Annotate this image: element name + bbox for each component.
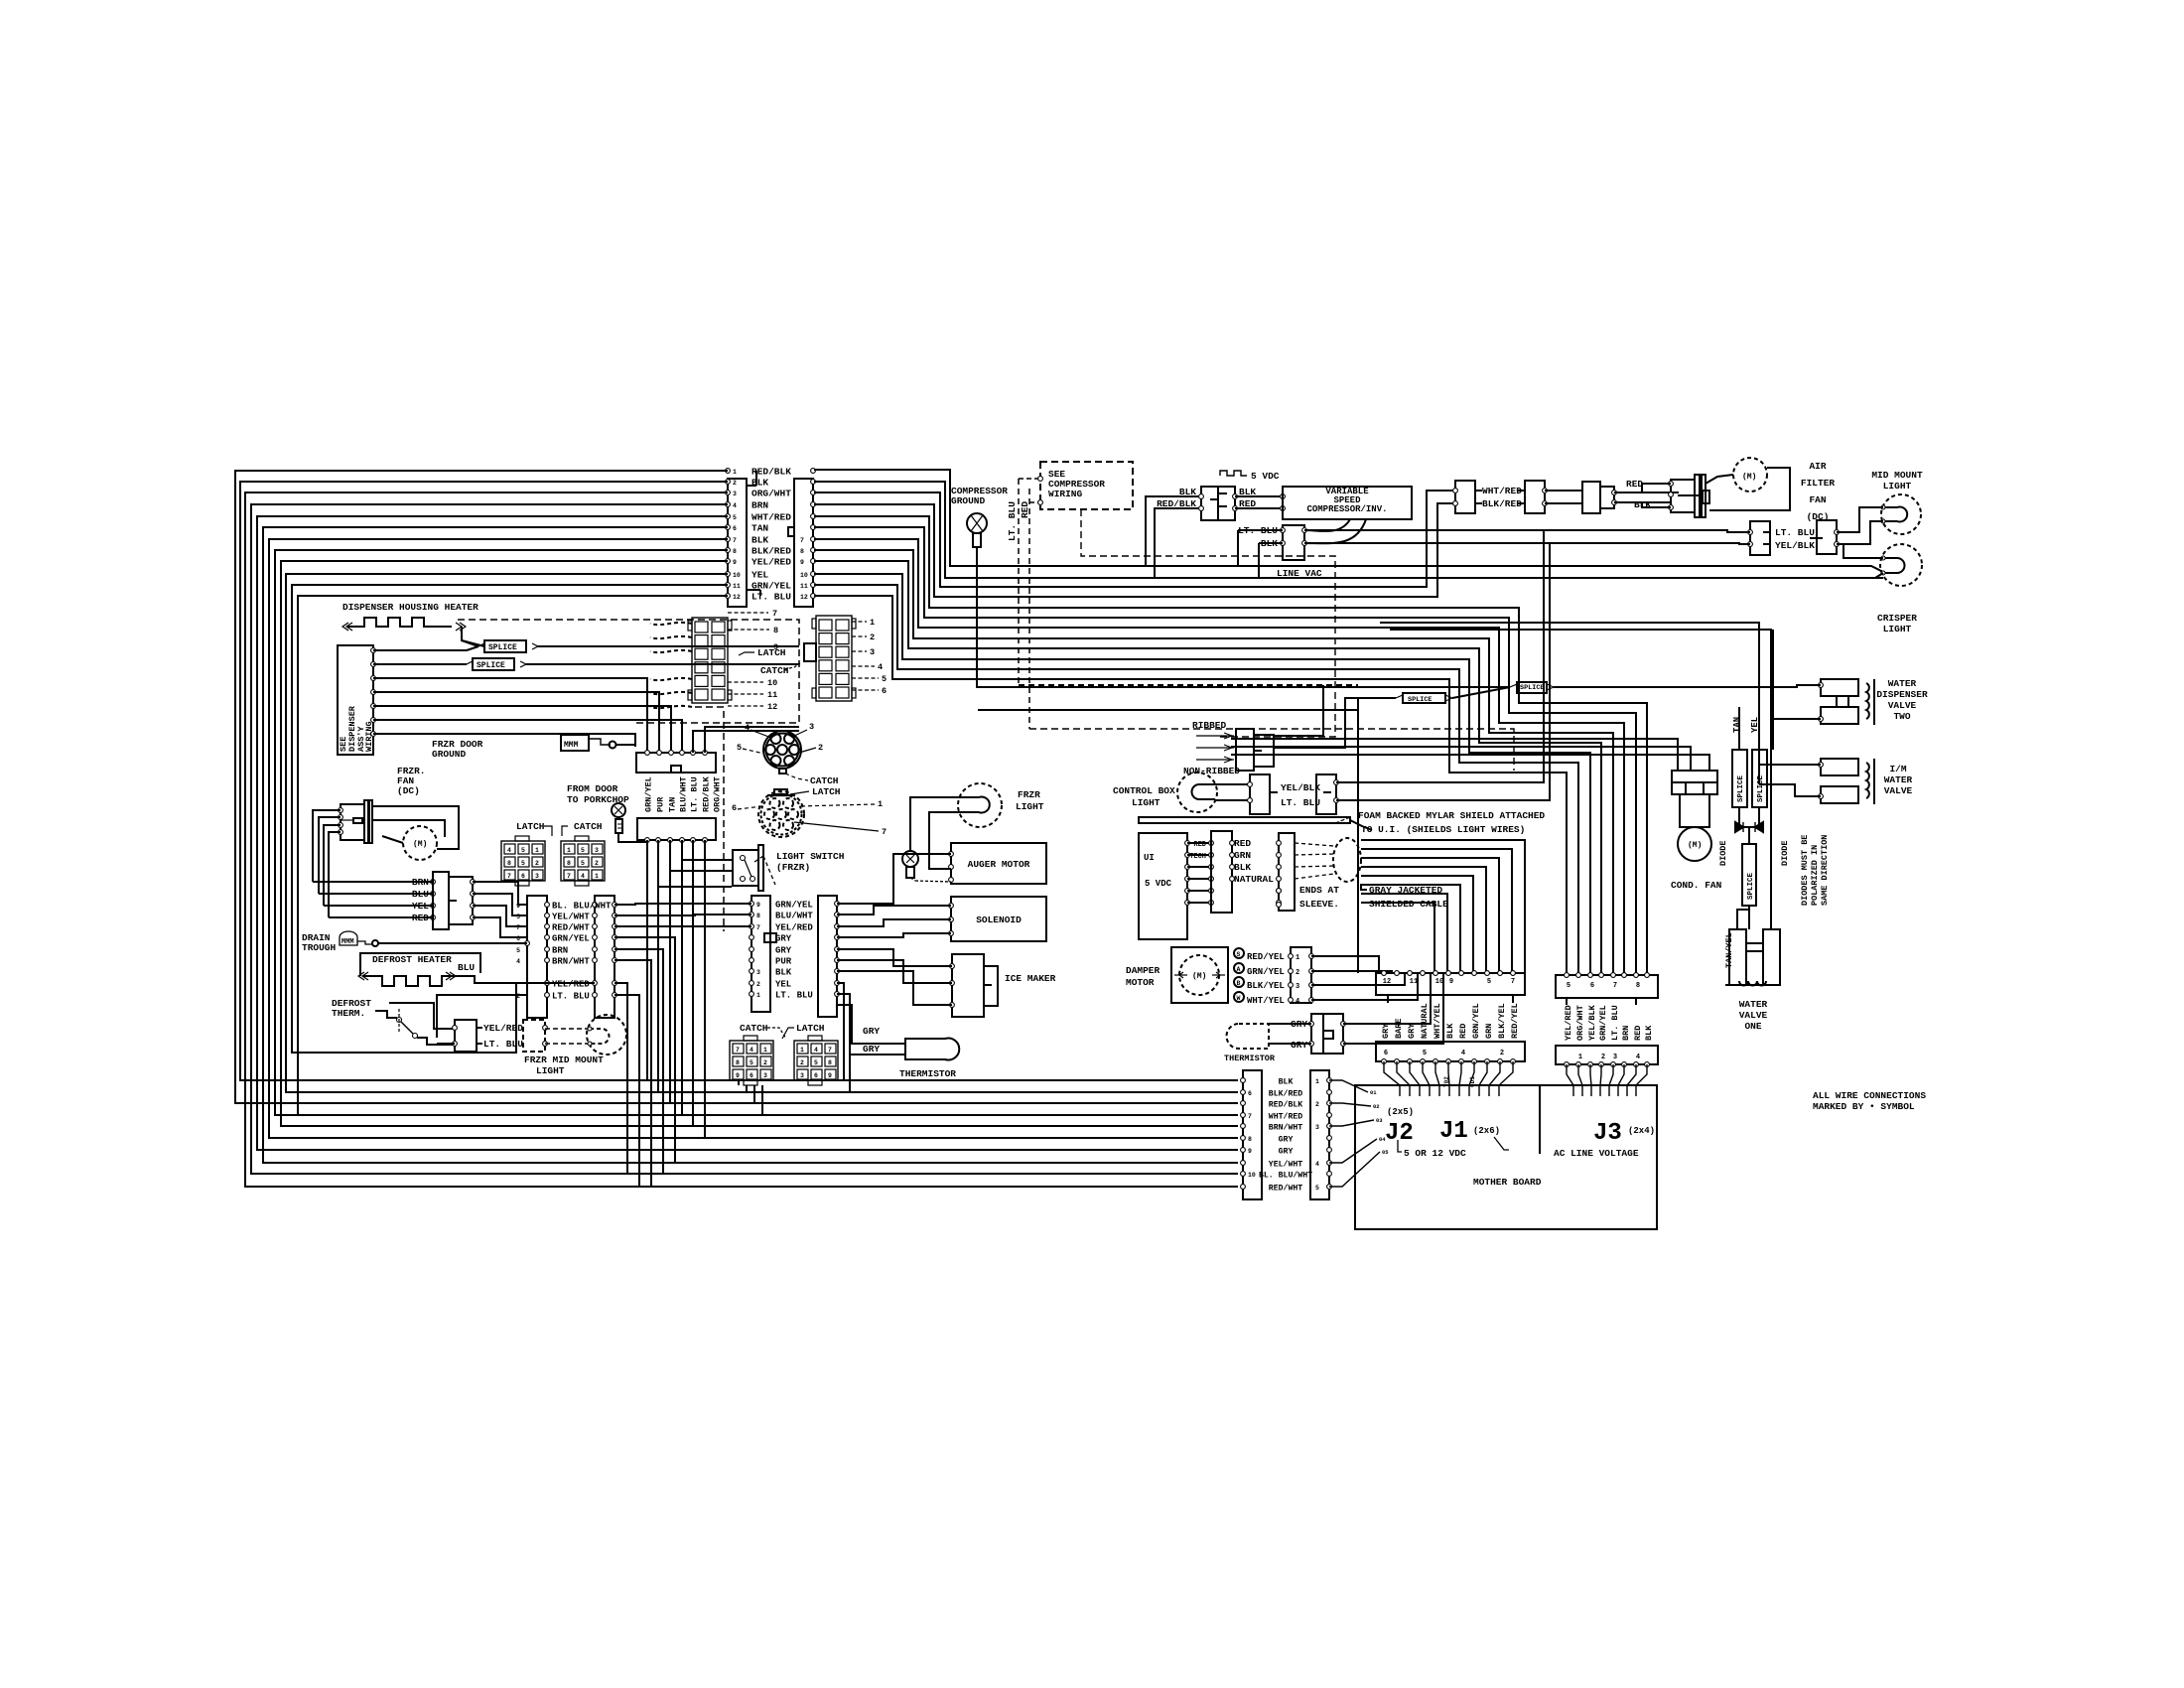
dashed lead — [650, 678, 692, 680]
pin strip A — [680, 751, 685, 756]
leader — [728, 645, 769, 647]
im water valve coil b — [1821, 786, 1858, 803]
svg-text:(2x4): (2x4) — [1628, 1126, 1655, 1136]
svg-text:4: 4 — [745, 723, 750, 733]
svg-text:5: 5 — [516, 947, 520, 954]
wire LT.BLU to plug — [1304, 530, 1750, 532]
ice maker connector — [952, 954, 984, 1017]
svg-text:NON-RIBBED: NON-RIBBED — [1183, 766, 1240, 776]
svg-text:RED/WHT: RED/WHT — [552, 923, 590, 933]
wire — [1187, 902, 1211, 904]
wire YEL down — [1758, 707, 1760, 750]
svg-text:4: 4 — [814, 1047, 818, 1054]
wire — [1187, 890, 1211, 892]
leader — [852, 677, 879, 679]
svg-text:J3: J3 — [1593, 1120, 1622, 1147]
svg-text:RED/YEL: RED/YEL — [1510, 1003, 1520, 1039]
J3 lower connector — [1556, 1046, 1658, 1064]
wire to J2 — [1329, 1139, 1377, 1163]
wire gry long — [978, 709, 1358, 711]
svg-text:TAN: TAN — [1732, 717, 1742, 733]
svg-text:CATCH: CATCH — [810, 775, 839, 786]
svg-text:9: 9 — [1449, 978, 1453, 986]
svg-text:(M): (M) — [1742, 473, 1756, 482]
svg-text:8: 8 — [567, 860, 571, 867]
pin P1 right row 9 — [811, 559, 816, 564]
svg-text:(2x5): (2x5) — [1387, 1107, 1414, 1117]
pin strip B — [703, 838, 708, 843]
shield connector strip — [1279, 833, 1295, 911]
cond fan motor — [1678, 827, 1711, 861]
svg-text:UI: UI — [1144, 853, 1155, 863]
svg-text:SPLICE: SPLICE — [488, 643, 517, 652]
svg-text:RED: RED — [1633, 1026, 1643, 1041]
pin 3 P1 left — [726, 491, 731, 495]
wire — [747, 589, 760, 591]
connector P1 left housing — [728, 479, 747, 607]
catch grid connector — [561, 841, 605, 881]
wire junction — [1743, 827, 1749, 844]
solenoid box — [951, 897, 1046, 941]
center connector M left — [527, 896, 547, 1018]
defrost heater loop — [360, 953, 480, 976]
svg-text:1: 1 — [870, 618, 875, 628]
svg-text:3: 3 — [733, 491, 737, 497]
svg-text:NATURAL: NATURAL — [1234, 874, 1274, 885]
center connector N right — [818, 896, 837, 1017]
wire — [319, 817, 341, 894]
svg-text:FAN: FAN — [1809, 494, 1826, 505]
svg-text:CATCH: CATCH — [740, 1023, 768, 1034]
pin 1 P1 left — [726, 469, 731, 474]
latch grid lower — [794, 1041, 838, 1080]
im water valve coil a — [1821, 759, 1858, 775]
mylar shield bar — [1139, 817, 1350, 823]
dashed wire — [545, 1028, 590, 1030]
leader — [852, 621, 867, 623]
dashed lead — [650, 636, 692, 638]
svg-text:VALVE: VALVE — [1884, 785, 1913, 796]
mother board box — [1355, 1085, 1657, 1229]
pin strip B — [680, 838, 685, 843]
svg-text:SPLICE: SPLICE — [1737, 774, 1745, 802]
wire J1 to board — [1423, 1061, 1430, 1096]
wire down — [614, 949, 663, 1174]
wire harness left TAN — [263, 527, 1238, 1163]
svg-text:4: 4 — [1315, 1161, 1319, 1168]
wire — [615, 745, 635, 747]
svg-text:GRN: GRN — [1234, 850, 1251, 861]
svg-text:5 OR 12 VDC: 5 OR 12 VDC — [1404, 1148, 1466, 1159]
svg-text:02: 02 — [1373, 1103, 1380, 1110]
dispenser pin 1 — [371, 648, 376, 653]
wire long — [1390, 630, 1771, 929]
svg-text:4: 4 — [733, 502, 737, 509]
svg-text:FRZR MID MOUNT: FRZR MID MOUNT — [524, 1055, 604, 1065]
wire — [452, 976, 527, 983]
svg-text:LATCH: LATCH — [812, 786, 841, 797]
svg-text:WATER: WATER — [1739, 999, 1768, 1010]
wire — [1274, 698, 1358, 748]
svg-text:SAME DIRECTION: SAME DIRECTION — [1820, 835, 1830, 906]
svg-text:YEL/RED: YEL/RED — [775, 923, 813, 933]
wire harness left BLK/RED — [275, 550, 1238, 1115]
wire — [372, 806, 459, 849]
wire harness left BLK — [269, 539, 1238, 1138]
wire down — [614, 960, 651, 1187]
svg-text:LIGHT: LIGHT — [1016, 801, 1044, 812]
svg-text:5: 5 — [1567, 982, 1570, 990]
wire down — [614, 937, 675, 1163]
svg-text:GRN/YEL: GRN/YEL — [1471, 1003, 1481, 1039]
svg-text:7: 7 — [828, 1047, 832, 1054]
svg-text:BLK/YEL: BLK/YEL — [1497, 1003, 1507, 1039]
svg-text:SOLENOID: SOLENOID — [976, 914, 1022, 925]
svg-text:BLK: BLK — [751, 535, 768, 546]
air filter plug body — [1671, 480, 1695, 512]
wire — [1238, 529, 1283, 531]
svg-text:GRY: GRY — [863, 1026, 880, 1037]
dashed wire RED — [1028, 489, 1030, 729]
svg-text:2: 2 — [870, 633, 875, 642]
svg-text:NATURAL: NATURAL — [1420, 1003, 1430, 1039]
leader — [728, 629, 769, 631]
svg-text:YEL/RED: YEL/RED — [483, 1023, 523, 1034]
svg-text:T02: T02 — [1443, 1076, 1450, 1087]
svg-text:(M): (M) — [1688, 841, 1702, 850]
wire RED — [329, 916, 433, 918]
svg-text:I/M: I/M — [1889, 764, 1906, 774]
svg-text:3: 3 — [1296, 983, 1299, 991]
svg-text:3: 3 — [595, 847, 599, 854]
svg-text:WHT/YEL: WHT/YEL — [1247, 996, 1285, 1006]
svg-text:DISPENSER HOUSING HEATER: DISPENSER HOUSING HEATER — [342, 602, 478, 613]
wire — [373, 706, 671, 753]
svg-text:WHT/RED: WHT/RED — [751, 512, 791, 523]
strip A tab — [671, 766, 681, 773]
svg-text:5: 5 — [521, 860, 525, 867]
wire J3 to board — [1636, 1064, 1647, 1096]
svg-text:5: 5 — [521, 847, 525, 854]
svg-text:DIODES MUST BE: DIODES MUST BE — [1800, 835, 1810, 906]
wire — [929, 812, 961, 869]
svg-text:5: 5 — [1315, 1185, 1319, 1192]
svg-text:7: 7 — [736, 1047, 740, 1054]
svg-text:RED/YEL: RED/YEL — [1247, 952, 1285, 962]
wire YEL/RED to J3 — [814, 561, 1601, 973]
wire RED — [1614, 484, 1671, 492]
wire YEL/BLK to plug — [1304, 543, 1750, 544]
svg-text:10: 10 — [1248, 1172, 1256, 1179]
svg-text:2: 2 — [1500, 1050, 1504, 1057]
wire — [658, 886, 732, 888]
wire yel/red feed — [389, 1003, 455, 1029]
svg-text:7: 7 — [516, 924, 520, 931]
svg-text:BLK: BLK — [1644, 1025, 1654, 1041]
fan feed connector left — [433, 872, 449, 929]
svg-text:FRZR: FRZR — [1018, 789, 1040, 800]
svg-text:GRY: GRY — [1381, 1023, 1391, 1039]
wire shield to J1 — [1361, 876, 1473, 973]
svg-text:1: 1 — [756, 992, 760, 999]
bottom connector right — [1310, 1070, 1329, 1199]
dashed compressor run — [1081, 509, 1335, 737]
frzr mid mount connector — [455, 1020, 477, 1052]
wire — [614, 904, 751, 905]
svg-text:GRY: GRY — [1279, 1135, 1294, 1144]
svg-text:CRISPER: CRISPER — [1877, 613, 1917, 624]
round connector upper — [763, 731, 801, 769]
plug RED right — [1600, 487, 1614, 508]
svg-text:2: 2 — [1601, 1054, 1605, 1061]
svg-text:8: 8 — [800, 548, 804, 555]
svg-text:GROUND: GROUND — [951, 495, 986, 506]
svg-text:LT. BLU: LT. BLU — [483, 1039, 523, 1050]
wire to fan — [1706, 475, 1733, 484]
12-pin block right — [816, 616, 852, 701]
svg-text:10: 10 — [800, 572, 808, 579]
wire — [1336, 543, 1550, 800]
svg-text:BRN: BRN — [751, 500, 768, 511]
svg-text:01: 01 — [1370, 1089, 1377, 1096]
svg-text:GRY: GRY — [775, 934, 792, 944]
svg-text:BRN: BRN — [552, 946, 568, 956]
plug YEL/BLK right — [1316, 774, 1336, 814]
drain trough heater block — [340, 931, 357, 945]
ground lug — [589, 739, 611, 745]
svg-text:RED/BLK: RED/BLK — [1269, 1099, 1302, 1109]
pin P1 right row 2 — [811, 480, 816, 485]
dispenser pin 5 — [371, 704, 376, 709]
ribbed connector right — [1254, 735, 1274, 767]
svg-text:2: 2 — [818, 743, 823, 753]
svg-text:04: 04 — [1379, 1136, 1386, 1143]
crisper filament — [1883, 558, 1905, 573]
pin P1 right row 12 — [811, 594, 816, 599]
dotted lead — [915, 881, 951, 882]
wire J1 to board — [1499, 1061, 1513, 1096]
dashed wire — [1029, 501, 1040, 503]
svg-text:BLK: BLK — [1445, 1023, 1455, 1039]
svg-text:BL. BLU/WHT: BL. BLU/WHT — [1259, 1170, 1312, 1180]
svg-text:8: 8 — [736, 1059, 740, 1066]
svg-text:RED: RED — [1458, 1024, 1468, 1039]
svg-text:TAN: TAN — [751, 523, 768, 534]
leader — [728, 705, 763, 707]
fan feed connector right — [449, 877, 473, 924]
svg-text:GRN/YEL: GRN/YEL — [751, 581, 791, 592]
wire — [614, 914, 751, 915]
svg-text:VALVE: VALVE — [1888, 700, 1917, 711]
svg-text:POLARIZED IN: POLARIZED IN — [1810, 845, 1820, 906]
svg-text:2: 2 — [800, 1059, 804, 1066]
svg-text:1: 1 — [1296, 954, 1299, 962]
wire — [1311, 973, 1405, 985]
svg-text:COMPRESSOR/INV.: COMPRESSOR/INV. — [1306, 504, 1387, 514]
diode left — [1735, 822, 1743, 832]
ribbed connector left — [1236, 729, 1254, 771]
svg-text:LT. BLU: LT. BLU — [1610, 1005, 1620, 1041]
pin 10 P1 left — [726, 572, 731, 577]
svg-text:3: 3 — [870, 647, 875, 657]
dashed lead — [650, 623, 692, 625]
thermistor connector — [1311, 1014, 1343, 1054]
wire BLK — [1614, 502, 1671, 507]
svg-text:FOAM BACKED MYLAR SHIELD ATTAC: FOAM BACKED MYLAR SHIELD ATTACHED — [1358, 810, 1545, 821]
connector P1 latch tab — [788, 527, 794, 536]
svg-text:TAN: TAN — [668, 797, 678, 812]
svg-text:SLEEVE.: SLEEVE. — [1299, 899, 1339, 910]
wire — [378, 942, 516, 944]
svg-text:6: 6 — [814, 1072, 818, 1079]
wire BRN to plug — [814, 503, 1455, 597]
svg-text:RED/BLK: RED/BLK — [1157, 498, 1196, 509]
svg-text:DIODE: DIODE — [1780, 840, 1790, 866]
compressor plug right half — [1218, 487, 1235, 520]
pin strip B — [691, 838, 696, 843]
svg-text:WATER: WATER — [1888, 678, 1917, 689]
wire — [1554, 685, 1821, 687]
wire BLK to J3 — [814, 539, 1624, 973]
wire strip B down — [669, 840, 671, 1103]
dashed compressor run 2 — [1029, 729, 1514, 771]
svg-text:(DC): (DC) — [397, 785, 420, 796]
wire strip B down — [704, 840, 706, 1138]
svg-text:7: 7 — [1613, 982, 1617, 990]
water valve one left — [1729, 929, 1746, 985]
svg-text:6: 6 — [750, 1072, 753, 1079]
svg-text:10: 10 — [1435, 978, 1443, 986]
wire J1 to board — [1410, 1061, 1420, 1096]
compressor ground ring terminal — [967, 513, 987, 533]
wire — [837, 854, 951, 904]
svg-text:7: 7 — [733, 537, 737, 544]
svg-text:BRN: BRN — [1621, 1026, 1631, 1041]
svg-text:WHT/RED: WHT/RED — [1269, 1111, 1302, 1121]
splice vertical TAN — [1732, 750, 1747, 807]
wire YEL to J3 — [814, 574, 1590, 973]
wire to splice — [373, 649, 467, 651]
catch grid lower — [730, 1041, 773, 1080]
pin 6 P1 left — [726, 525, 731, 530]
wire down — [614, 983, 627, 1174]
wire J3 to board — [1567, 1064, 1573, 1096]
wire tan feed — [1772, 630, 1774, 719]
wire harness left GRN/YEL — [292, 585, 728, 1053]
svg-text:9: 9 — [736, 1072, 740, 1079]
dashed lead — [650, 706, 692, 708]
wire — [1274, 685, 1323, 736]
wire — [1737, 910, 1749, 929]
svg-text:5: 5 — [581, 860, 585, 867]
svg-text:TECH: TECH — [1189, 853, 1206, 861]
svg-text:2: 2 — [595, 860, 599, 867]
wire — [837, 906, 951, 914]
svg-text:7: 7 — [882, 827, 887, 837]
svg-text:LINE VAC: LINE VAC — [1277, 568, 1322, 579]
svg-text:RED: RED — [1234, 838, 1251, 849]
svg-text:GRN/YEL: GRN/YEL — [552, 934, 590, 944]
svg-text:8: 8 — [828, 1059, 832, 1066]
auger motor box — [951, 843, 1046, 884]
svg-text:10: 10 — [733, 572, 741, 579]
dashed shield wire — [1295, 874, 1334, 879]
dispenser pin 6 — [371, 718, 376, 723]
wire — [670, 870, 732, 872]
svg-text:YEL/WHT: YEL/WHT — [552, 913, 590, 922]
svg-text:GRY: GRY — [863, 1044, 880, 1055]
wire curve inverter to line vac — [1304, 519, 1350, 531]
thermistor right — [1227, 1024, 1270, 1049]
pin strip B — [668, 838, 673, 843]
dashed shield wire — [1295, 854, 1334, 855]
leader — [852, 689, 879, 691]
svg-text:MOTOR: MOTOR — [1126, 977, 1155, 988]
svg-text:BLK/YEL: BLK/YEL — [1247, 981, 1285, 991]
svg-text:4: 4 — [507, 847, 511, 854]
svg-text:DAMPER: DAMPER — [1126, 965, 1160, 976]
wire — [1231, 755, 1709, 771]
svg-text:YEL/BLK: YEL/BLK — [1587, 1004, 1597, 1041]
wire — [1311, 971, 1392, 973]
wire — [1336, 530, 1544, 782]
plug WHT/RED right — [1525, 481, 1545, 513]
svg-text:BARE: BARE — [1394, 1019, 1404, 1039]
svg-text:SPLICE: SPLICE — [1757, 774, 1765, 802]
svg-text:9: 9 — [516, 903, 520, 910]
see dispenser assy wiring box — [338, 645, 373, 755]
wire — [1231, 747, 1691, 771]
svg-text:4: 4 — [581, 873, 585, 880]
wire — [747, 485, 756, 487]
frzr fan motor — [403, 826, 437, 860]
wire — [437, 1044, 455, 1046]
cond fan connector — [1672, 771, 1717, 794]
svg-text:LIGHT: LIGHT — [1883, 624, 1912, 634]
wire — [473, 882, 527, 905]
svg-text:ALL WIRE CONNECTIONS: ALL WIRE CONNECTIONS — [1813, 1090, 1926, 1101]
leader — [728, 681, 763, 683]
svg-text:WATER: WATER — [1884, 774, 1913, 785]
air filter plug bar2 — [1702, 475, 1706, 517]
J1 upper connector — [1376, 973, 1525, 995]
svg-text:LT. BLU: LT. BLU — [552, 992, 590, 1002]
svg-text:11: 11 — [733, 583, 741, 590]
svg-text:11: 11 — [800, 583, 808, 590]
svg-text:LT. BLU: LT. BLU — [1775, 527, 1815, 538]
svg-text:LATCH: LATCH — [757, 647, 786, 658]
svg-text:1: 1 — [567, 847, 571, 854]
mid mount filament 2 — [590, 1029, 610, 1044]
wire BLK — [1235, 495, 1283, 497]
pin P1 right row 7 — [811, 537, 816, 542]
svg-text:MMM: MMM — [341, 938, 354, 946]
svg-text:YEL/RED: YEL/RED — [1564, 1005, 1573, 1041]
svg-text:BLU: BLU — [458, 962, 475, 973]
damper connector strip — [1291, 947, 1311, 1003]
ground terminal — [902, 851, 918, 867]
svg-text:YEL/RED: YEL/RED — [751, 557, 791, 568]
defrost thermostat — [375, 1011, 397, 1018]
wire ORG/WHT to WHT/RED plug — [814, 491, 1455, 587]
svg-text:3: 3 — [800, 1072, 804, 1079]
wire to J2 — [1329, 1152, 1380, 1187]
svg-text:4: 4 — [1636, 1054, 1640, 1061]
svg-text:4: 4 — [750, 1047, 753, 1054]
svg-text:6D1: 6D1 — [1469, 1076, 1476, 1087]
svg-text:1: 1 — [733, 469, 737, 476]
wire splice diagonal — [1452, 687, 1510, 698]
